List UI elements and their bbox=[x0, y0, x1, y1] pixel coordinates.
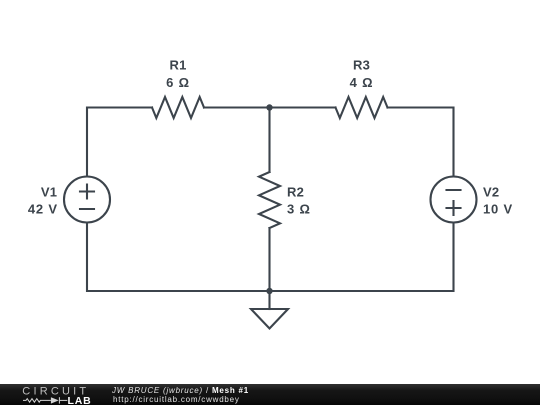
voltage source V2 (circle) bbox=[431, 177, 477, 223]
wire: V1 top to R1 left bbox=[87, 108, 152, 177]
wire: node B to bottom-left corner to V1 bottom bbox=[87, 223, 270, 292]
V2 minus sign bbox=[447, 189, 461, 191]
resistor R3 bbox=[336, 97, 388, 118]
ground triangle bbox=[251, 309, 288, 329]
V2 plus sign bbox=[447, 201, 461, 215]
wire: R2 bottom to node B bbox=[268, 228, 270, 291]
resistor R1 bbox=[152, 97, 204, 118]
wire: node A down to R2 top bbox=[268, 108, 270, 173]
wire: R1 right to node A bbox=[204, 106, 270, 108]
ground stem bbox=[268, 291, 270, 309]
attribution text bbox=[0, 384, 540, 405]
V1 plus sign bbox=[80, 185, 94, 199]
node B junction dot bbox=[266, 288, 272, 294]
wire: V2 bottom to bottom-right corner to node B bbox=[270, 223, 454, 292]
node A junction dot bbox=[266, 104, 272, 110]
svg-text:42 V: 42 V bbox=[28, 202, 58, 217]
svg-text:6 Ω: 6 Ω bbox=[166, 75, 190, 90]
svg-text:R1: R1 bbox=[169, 58, 186, 73]
svg-text:R2: R2 bbox=[287, 185, 304, 200]
CircuitLab logo bbox=[0, 384, 110, 405]
svg-text:10 V: 10 V bbox=[483, 202, 513, 217]
svg-text:3 Ω: 3 Ω bbox=[287, 202, 311, 217]
svg-text:4 Ω: 4 Ω bbox=[350, 75, 374, 90]
V1 minus sign bbox=[80, 208, 94, 210]
svg-text:V1: V1 bbox=[41, 185, 57, 200]
wire: node A to R3 left bbox=[270, 106, 336, 108]
svg-text:V2: V2 bbox=[483, 185, 499, 200]
svg-text:R3: R3 bbox=[353, 58, 370, 73]
voltage source V1 (circle) bbox=[64, 177, 110, 223]
resistor R2 bbox=[259, 172, 280, 228]
footer bar bbox=[0, 384, 540, 405]
wire: R3 right to V2 top bbox=[388, 108, 454, 177]
